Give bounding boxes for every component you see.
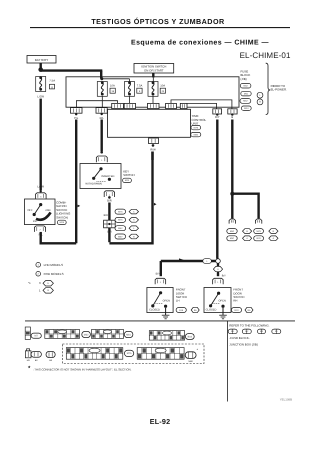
svg-text:D: D [47,282,49,284]
wire end connector B2 [255,219,261,224]
pinout B18 [149,331,184,341]
fusible link 7.5A [36,77,46,92]
svg-text:6: 6 [40,196,41,198]
fuse F1 10A [97,82,107,97]
svg-text:M79: M79 [256,230,260,232]
svg-text:CLOSED: CLOSED [206,309,217,312]
connector J/B out 2 [96,108,107,114]
wire battery feed drop [100,71,102,79]
svg-text:B: B [133,236,135,238]
svg-text:: THIS CONNECTOR IS NOT SHOWN: : THIS CONNECTOR IS NOT SHOWN IN “HARNES… [33,368,132,371]
svg-text:CONTROL: CONTROL [192,119,207,122]
svg-text:24: 24 [162,90,165,93]
battery box [27,56,56,64]
svg-text:EL-CHIME-01: EL-CHIME-01 [240,51,291,60]
svg-text:RH: RH [233,299,237,302]
svg-text:M62: M62 [118,227,122,229]
svg-text:7: 7 [39,229,40,231]
tag lens below junction [213,267,222,272]
svg-text:EL-92: EL-92 [150,417,171,426]
svg-text:R/L: R/L [100,117,104,120]
svg-text:A: A [133,219,135,221]
svg-text:M7: M7 [35,335,38,338]
svg-text:L/OR: L/OR [37,185,44,188]
svg-text:B6: B6 [248,309,251,311]
wire B branch [232,194,258,219]
svg-text:B: B [47,289,49,291]
svg-text:2: 2 [38,273,39,276]
arrow on run [179,258,184,261]
connector key switch top [96,156,107,162]
svg-text:B/R: B/R [107,199,112,202]
connector combination switch bottom [34,226,45,232]
connector R/Y out [213,109,222,114]
svg-text:L: L [259,94,260,97]
ignition switch box [134,64,174,74]
svg-text:B: B [273,230,275,232]
svg-text:SWITCH: SWITCH [176,296,187,299]
wire ignition stub [152,73,154,77]
svg-text:SWITCH: SWITCH [233,296,244,299]
connector LH door top [155,278,166,284]
connector tag M61 [241,91,251,96]
tag circle B [257,99,263,105]
svg-text:B/Y: B/Y [222,275,226,278]
svg-text:M57: M57 [118,236,122,238]
svg-text:1: 1 [217,281,218,283]
svg-text:(LIGHTING: (LIGHTING [56,212,70,215]
svg-text:SWITCH: SWITCH [123,174,134,177]
svg-text:(J/B): (J/B) [241,77,247,80]
wire F1 output routing [101,96,103,100]
tag oval on run [203,259,212,264]
svg-text:KEY: KEY [123,170,129,173]
svg-text:M9: M9 [27,359,30,361]
svg-text:B18: B18 [179,309,183,311]
connector tag M28 [57,220,66,224]
svg-text:M61: M61 [244,93,248,95]
pinout M32 [45,330,80,339]
wire B down [231,120,233,219]
svg-text:JUNCTION BOX (J/B): JUNCTION BOX (J/B) [229,343,258,346]
wire R/W from TCU [151,152,153,161]
svg-text:FUSE: FUSE [241,70,249,73]
marker on P/L wire [78,205,81,208]
wire to RH door switch [217,263,219,266]
svg-text:3: 3 [39,282,41,285]
tag circle L [257,92,263,98]
svg-text:1: 1 [160,281,161,283]
refer tag 2 [242,329,251,334]
tag RH [231,308,241,313]
wire P/L to combination switch [41,232,76,244]
wire F2 output routing [129,96,131,103]
svg-text:B: B [259,101,261,104]
svg-text:RHD MODELS: RHD MODELS [44,273,64,276]
svg-text:M32: M32 [243,85,247,87]
pinout M79 [137,348,184,360]
legend RHD [36,271,41,276]
svg-text:CLOSED: CLOSED [149,309,160,312]
svg-text:M75: M75 [127,352,132,355]
svg-text:*1: *1 [28,282,31,285]
wire R/Y down [216,120,218,259]
wire TCU to B connector routing [171,100,232,109]
svg-text:M32: M32 [84,333,89,336]
svg-text:INSERTED: INSERTED [101,175,114,178]
connector combination switch top [36,193,47,199]
marker on R/W wire [154,203,157,206]
svg-text:7.5A: 7.5A [137,84,143,87]
junction dot B [230,192,234,196]
svg-text:M79: M79 [194,127,198,129]
wire LH ground [165,308,167,315]
junction circle [216,259,221,264]
tag cluster rows [115,209,126,214]
legend LHD [36,262,41,267]
svg-text:OPEN: OPEN [163,300,170,303]
svg-text:B: B [231,116,233,119]
wire L/OR down [40,99,42,191]
svg-text:5: 5 [139,90,140,93]
combination switch box [25,199,56,225]
svg-text:DOOR: DOOR [233,292,241,295]
svg-text:DOOR: DOOR [176,292,184,295]
refer tag 4 [272,329,281,334]
connector TCU bottom [149,138,159,144]
svg-text:C: C [133,211,135,213]
svg-text:L: L [206,260,207,262]
svg-text:B6: B6 [35,359,38,361]
svg-text:REFER TO: REFER TO [271,85,286,88]
refer bracket [266,63,271,114]
wire door switch run [161,260,216,262]
pinout M7 [25,327,30,339]
front door switch LH box [147,288,173,313]
svg-text:WITHDRAWN: WITHDRAWN [85,183,101,186]
svg-text:M61: M61 [126,333,131,336]
connector tag M79 [191,125,201,129]
wire to LH door switch [160,261,162,276]
svg-text:B8: B8 [49,359,52,361]
svg-text:L: L [133,227,134,229]
footnote [28,365,31,368]
svg-text:M24: M24 [125,179,129,181]
svg-text:g: g [51,86,52,89]
wire B/R to TCU route [109,152,152,244]
svg-text:BLOCK: BLOCK [241,74,251,77]
pinout M80 oval connector [185,352,196,359]
wire battery stub [40,63,42,70]
svg-text:M75: M75 [118,219,122,221]
svg-text:B18: B18 [188,335,192,338]
tag LH [176,308,186,313]
svg-text:R/W: R/W [150,148,155,151]
connector RH door top [213,278,224,284]
inline connector on B/R [104,220,116,228]
svg-text:M80: M80 [188,360,192,362]
svg-text:2: 2 [109,194,110,196]
svg-text:BATTERY: BATTERY [35,58,49,61]
front door switch RH box [204,288,231,313]
svg-text:FRONT: FRONT [176,288,186,291]
pinout M75 [66,348,123,360]
pinout M24 small [25,351,31,358]
svg-text:P/L: P/L [39,233,43,236]
svg-text:B10: B10 [235,309,239,311]
svg-text:A: A [246,237,248,239]
svg-text:M34: M34 [244,107,248,109]
svg-text:OFF: OFF [28,209,33,212]
svg-text:TIME: TIME [192,115,199,118]
tag oval B6a [31,351,41,357]
svg-text:*: * [197,348,198,352]
svg-text:B/R: B/R [104,214,108,217]
svg-text:M62: M62 [243,100,247,102]
svg-text:-FUSE BLOCK-: -FUSE BLOCK- [229,337,249,340]
refer column line [227,321,229,402]
svg-text:OPEN: OPEN [219,300,226,303]
svg-text:SWITCH: SWITCH [56,209,67,212]
svg-text:2ND: 2ND [45,209,50,212]
svg-text:10A: 10A [160,84,165,87]
separator line [25,320,295,322]
svg-text:A: A [217,268,219,270]
tag oval B8 [46,351,55,357]
svg-text:Esquema de conexiones — CHIME: Esquema de conexiones — CHIME — [131,39,269,47]
svg-text:M57: M57 [230,237,234,239]
svg-text:ON OR START: ON OR START [144,69,164,72]
svg-text:YEL108B: YEL108B [280,398,292,401]
pinout M61 [92,330,124,339]
svg-text:COMBI-: COMBI- [56,201,66,204]
svg-text:EL-POWER.: EL-POWER. [271,88,287,91]
connector tag M34 [241,106,251,110]
svg-text:1: 1 [38,264,39,267]
svg-text:M28: M28 [60,221,64,223]
svg-text:L/OR: L/OR [37,95,44,98]
svg-text:NATION: NATION [56,205,66,208]
refer tag 1 [228,329,237,334]
wire P/L down [75,120,77,244]
wire end connector B1 [229,219,235,224]
svg-text:LH: LH [176,299,180,302]
wire battery feed horizontal [41,69,103,71]
svg-text:M80: M80 [194,134,198,136]
wire B/R down [108,203,110,221]
junction dot fuse bus [100,77,103,80]
svg-text:16: 16 [111,90,114,93]
connector tag M32 [240,83,251,88]
svg-text:LHD MODELS: LHD MODELS [44,264,64,267]
svg-text:B6: B6 [194,309,197,311]
svg-text:B20: B20 [257,237,261,239]
wire RH ground [222,308,224,315]
svg-text:10A: 10A [110,84,115,87]
svg-text:M75: M75 [118,211,122,213]
svg-text:R/Y: R/Y [215,116,220,119]
tag grid right cluster [227,229,237,234]
wire R/L to key switch [100,120,102,152]
title rule [30,27,290,29]
time control unit box [108,109,191,137]
wire F3 output routing [152,96,154,103]
connector tag M80 [191,132,201,136]
svg-text:IGNITION SWITCH: IGNITION SWITCH [141,65,166,68]
wire TCU to R/Y connector routing [186,103,217,108]
key switch box [80,164,121,189]
connector B out [228,109,237,114]
svg-text:TESTIGOS ÓPTICOS Y ZUMBADOR: TESTIGOS ÓPTICOS Y ZUMBADOR [91,17,225,26]
svg-text:M62: M62 [230,230,234,232]
svg-text:SWITCH): SWITCH) [56,216,68,219]
bus battery to fuses [102,78,130,80]
connector J/B out 1 [71,108,83,114]
dashed group box [63,344,205,364]
svg-text:1: 1 [101,159,102,161]
junction dot battery [38,67,43,72]
svg-text:B: B [246,230,248,232]
svg-text:B/Y: B/Y [156,273,160,276]
connector key switch bottom [104,191,114,197]
svg-text:7.5A: 7.5A [49,79,55,82]
svg-text:REFER TO THE FOLLOWING.: REFER TO THE FOLLOWING. [229,324,269,327]
svg-text:1: 1 [39,289,41,292]
connector TCU pin row [112,103,124,108]
fuse F2 7.5A [125,82,135,97]
ground LH [162,314,170,316]
svg-text:FRONT: FRONT [233,288,243,291]
connector tag M62 [240,99,251,104]
fuse F3 10A [148,82,158,97]
refer tag 3 [258,329,266,334]
svg-text:A: A [273,237,275,239]
ground RH [219,314,227,316]
connector tag M24 [123,178,132,182]
fuse block J/B box [66,77,239,107]
